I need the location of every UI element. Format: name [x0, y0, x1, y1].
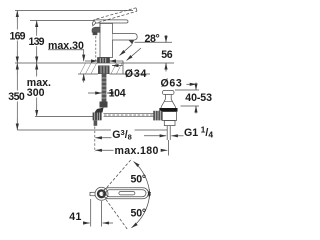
- svg-text:40-53: 40-53: [185, 92, 212, 104]
- svg-text:139: 139: [29, 36, 45, 48]
- svg-text:50°: 50°: [131, 173, 146, 185]
- svg-text:max.30: max.30: [48, 40, 84, 52]
- svg-text:max.180: max.180: [115, 145, 159, 157]
- svg-text:G3/8: G3/8: [112, 128, 132, 142]
- svg-text:41: 41: [69, 211, 81, 223]
- svg-text:50°: 50°: [131, 207, 146, 219]
- svg-text:169: 169: [10, 30, 26, 42]
- svg-text:104: 104: [109, 88, 126, 100]
- svg-text:28°: 28°: [145, 33, 160, 45]
- svg-text:300: 300: [27, 87, 45, 99]
- svg-text:350: 350: [8, 91, 25, 103]
- svg-text:Ø34: Ø34: [125, 68, 147, 80]
- svg-text:G11/4: G11/4: [184, 125, 213, 140]
- svg-text:56: 56: [161, 49, 172, 61]
- svg-text:Ø63: Ø63: [161, 78, 183, 90]
